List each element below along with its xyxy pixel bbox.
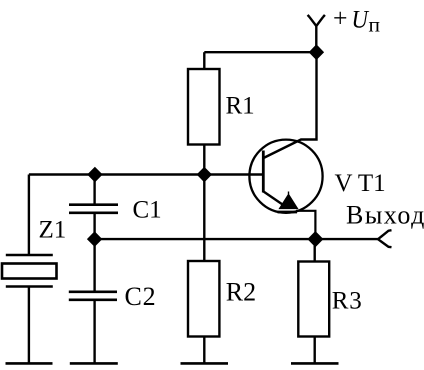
svg-text:+: + xyxy=(333,4,348,33)
wire: output rail xyxy=(95,238,378,240)
wire: crystal top lead xyxy=(28,175,30,255)
svg-text:V T1: V T1 xyxy=(335,170,386,197)
svg-text:Выход: Выход xyxy=(346,201,424,230)
wire: emitter lead to output node xyxy=(278,211,298,214)
wire: C2 bottom lead xyxy=(93,300,95,363)
wire: R1 bottom lead xyxy=(203,145,205,175)
wire: C1 top lead xyxy=(93,175,95,205)
junction: base node at R1/R2 xyxy=(197,168,211,182)
power terminal +Un (fork) xyxy=(308,15,325,26)
wire: C2 top lead xyxy=(93,239,95,291)
wire: R1 top lead xyxy=(203,52,205,69)
svg-text:R3: R3 xyxy=(332,287,363,314)
svg-text:C1: C1 xyxy=(133,197,162,224)
wire: C1 bottom lead xyxy=(93,213,95,239)
junction: emitter/output node xyxy=(308,232,323,247)
output terminal (fork) xyxy=(378,230,392,247)
wire: crystal bottom lead xyxy=(28,287,30,364)
ground (C2) xyxy=(70,362,118,365)
label +Un xyxy=(333,4,380,37)
transistor VT1 emitter xyxy=(264,192,285,206)
wire: base rail xyxy=(29,173,262,175)
junction: C1/C2 node xyxy=(88,232,102,246)
svg-text:U: U xyxy=(352,7,370,34)
svg-text:п: п xyxy=(369,14,381,36)
wire: R2 bottom lead xyxy=(203,337,205,364)
wire: R3 bottom lead xyxy=(314,337,316,364)
wire: supply terminal to top node xyxy=(315,25,317,52)
crystal Z1 xyxy=(2,255,57,287)
svg-text:R1: R1 xyxy=(226,93,255,120)
transistor VT1 emitter arrow xyxy=(280,192,298,209)
capacitor C2 xyxy=(69,292,117,300)
resistor R2 xyxy=(188,261,219,337)
wire: R2 top lead xyxy=(203,175,205,262)
transistor VT1 body xyxy=(249,140,322,213)
capacitor C1 xyxy=(69,205,118,213)
svg-text:Z1: Z1 xyxy=(39,217,67,244)
ground (R2) xyxy=(181,362,229,365)
wire: collector to supply node xyxy=(264,52,317,158)
wire: R3 top lead xyxy=(314,239,316,261)
ground (crystal) xyxy=(6,362,53,365)
wire: top rail from R1 to supply node xyxy=(204,51,316,53)
junction: supply node xyxy=(309,45,323,59)
resistor R1 xyxy=(188,69,220,145)
svg-text:R2: R2 xyxy=(226,278,256,307)
svg-text:C2: C2 xyxy=(125,282,157,311)
junction: C1 top node xyxy=(88,168,102,182)
transistor VT1 base bar xyxy=(262,151,265,193)
resistor R3 xyxy=(298,262,329,337)
ground (R3) xyxy=(291,362,339,365)
